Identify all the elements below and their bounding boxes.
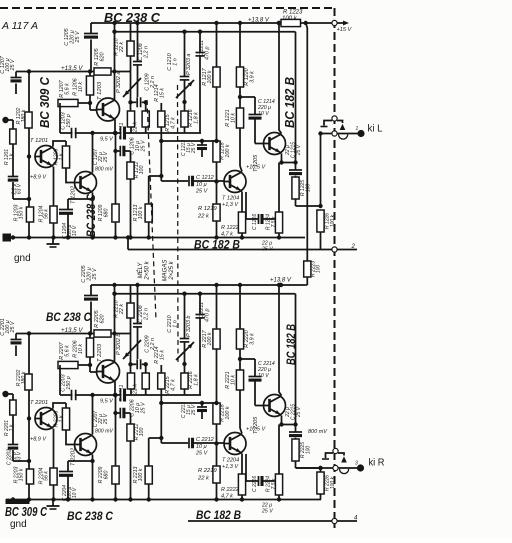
wire base divider bbox=[28, 72, 30, 238]
svg-text:150 p: 150 p bbox=[66, 114, 72, 128]
svg-text:100 k: 100 k bbox=[207, 332, 213, 345]
capacitor C2205 220u 25V bbox=[90, 285, 92, 295]
svg-text:4,7 k: 4,7 k bbox=[221, 494, 233, 500]
svg-text:T 2201: T 2201 bbox=[30, 400, 48, 406]
svg-text:A 117 A: A 117 A bbox=[1, 20, 38, 32]
svg-text:9,5 V: 9,5 V bbox=[100, 137, 114, 143]
input node (channel 1) bbox=[2, 117, 8, 123]
svg-text:+10,5 V: +10,5 V bbox=[246, 165, 266, 171]
svg-text:T 1202: T 1202 bbox=[71, 185, 77, 204]
svg-text:P 3202 a: P 3202 a bbox=[116, 72, 122, 93]
svg-text:2×25 k: 2×25 k bbox=[169, 260, 175, 280]
transistor T2203 bbox=[97, 360, 120, 383]
resistor R2207 5.6k bbox=[58, 361, 78, 368]
svg-text:150 k: 150 k bbox=[19, 468, 25, 481]
svg-text:+13,8 V: +13,8 V bbox=[270, 278, 292, 284]
ground rail bbox=[6, 499, 305, 501]
capacitor C2206 10u 25V bbox=[121, 389, 123, 402]
svg-text:100 k: 100 k bbox=[138, 206, 144, 219]
svg-text:22 k: 22 k bbox=[119, 42, 125, 53]
output jack ki R bbox=[326, 453, 334, 458]
svg-text:MÉLY: MÉLY bbox=[137, 262, 144, 279]
svg-text:25 V: 25 V bbox=[191, 404, 197, 416]
wire T1205 collector bbox=[279, 23, 282, 134]
svg-text:P 3203 b: P 3203 b bbox=[186, 316, 192, 337]
wire T1205 emitter bbox=[282, 154, 296, 163]
svg-text:15 k: 15 k bbox=[160, 88, 166, 98]
resistor R2201 1k bbox=[10, 400, 16, 415]
capacitor C1210 1n bbox=[184, 32, 186, 76]
resistor R1211 22k bbox=[127, 111, 134, 127]
svg-text:P 3202 b: P 3202 b bbox=[116, 334, 122, 355]
resistor R2202 180k bbox=[25, 374, 32, 390]
gang dashed link (treble pot) bbox=[177, 85, 180, 362]
resistor R1219 22k bbox=[213, 204, 220, 221]
svg-text:100: 100 bbox=[306, 184, 312, 193]
svg-text:T 2202: T 2202 bbox=[71, 447, 77, 466]
svg-text:63 V: 63 V bbox=[17, 451, 23, 462]
svg-text:R 1223: R 1223 bbox=[283, 10, 303, 16]
svg-text:25 V: 25 V bbox=[195, 451, 209, 457]
svg-text:22 k: 22 k bbox=[133, 122, 139, 133]
resistor R2215 4.7k bbox=[160, 365, 162, 373]
svg-text:MAGAS: MAGAS bbox=[163, 260, 169, 282]
svg-text:BC 309 C: BC 309 C bbox=[38, 76, 52, 128]
svg-text:T 1201: T 1201 bbox=[30, 138, 48, 144]
capacitor C2203 150p bbox=[72, 390, 74, 401]
capacitor C1213 15u 25V bbox=[201, 141, 203, 145]
svg-text:10 V: 10 V bbox=[72, 225, 78, 236]
svg-text:1 n: 1 n bbox=[173, 320, 179, 328]
svg-text:4,7 k: 4,7 k bbox=[171, 117, 177, 129]
svg-text:22 k: 22 k bbox=[197, 476, 210, 482]
transistor T2204 bbox=[224, 433, 246, 455]
svg-text:100 k: 100 k bbox=[225, 406, 231, 419]
resistor R2218 100k bbox=[213, 403, 220, 424]
svg-text:1,8 k: 1,8 k bbox=[194, 112, 200, 124]
capacitor C1204 220u 10V bbox=[68, 198, 93, 200]
emitter rail bbox=[60, 394, 201, 396]
transistor T1205 bbox=[264, 133, 286, 155]
resistor R1210 22k bbox=[130, 23, 132, 111]
svg-text:T 2203: T 2203 bbox=[97, 343, 103, 362]
svg-text:180 k: 180 k bbox=[21, 109, 27, 122]
ground symbol bbox=[52, 238, 54, 245]
svg-text:+13,8 V: +13,8 V bbox=[248, 18, 270, 24]
capacitor C1209 2.2n bbox=[131, 101, 137, 103]
capacitor C2210 1n bbox=[184, 294, 186, 338]
transistor T2201 bbox=[35, 408, 57, 430]
resistor R1203 150k bbox=[26, 207, 33, 222]
svg-text:10 k: 10 k bbox=[78, 82, 84, 92]
svg-text:C 2216: C 2216 bbox=[252, 476, 258, 492]
capacitor C2208 2.2n bbox=[137, 285, 139, 323]
svg-text:25 V: 25 V bbox=[10, 58, 16, 71]
output jack ki L bbox=[324, 121, 332, 126]
resistor R1217 100k bbox=[216, 23, 218, 67]
potentiometer P 3203 a bbox=[176, 80, 194, 98]
resistor R2214 15k bbox=[145, 364, 147, 373]
resistor R2225 100 bbox=[292, 439, 299, 461]
svg-text:C 1212: C 1212 bbox=[196, 175, 214, 181]
wire +13.5V rail (channel a) bbox=[29, 71, 131, 73]
capacitor C1207 22u bbox=[115, 133, 117, 204]
resistor R1218 100k bbox=[213, 141, 220, 162]
capacitor C2212 10u 25V bbox=[161, 442, 188, 444]
svg-text:22 k: 22 k bbox=[119, 304, 125, 315]
svg-text:25 V: 25 V bbox=[75, 30, 81, 43]
resistor R1208 1k bbox=[65, 141, 67, 146]
capacitor C2211 470p bbox=[199, 294, 201, 314]
svg-text:150 p: 150 p bbox=[66, 376, 72, 390]
resistor R2210 22k bbox=[130, 285, 132, 373]
svg-text:25 V: 25 V bbox=[261, 509, 273, 515]
svg-text:+15 V: +15 V bbox=[337, 27, 353, 33]
svg-text:680: 680 bbox=[104, 209, 110, 218]
wire collector feed T1203 bbox=[114, 23, 116, 100]
svg-text:2×50 k: 2×50 k bbox=[145, 260, 151, 280]
resistor R2220 3.9k bbox=[239, 285, 241, 329]
capacitor C2214 220u 10V bbox=[240, 358, 255, 360]
svg-text:470 p: 470 p bbox=[205, 309, 211, 323]
svg-text:1 k: 1 k bbox=[59, 415, 65, 422]
capacitor C1207 100u 25V bbox=[16, 71, 29, 73]
resistor R1206 10k bbox=[89, 72, 91, 77]
svg-text:63 V: 63 V bbox=[17, 183, 23, 194]
resistor R1223 100k bbox=[306, 22, 334, 24]
input node (channel 2) bbox=[2, 391, 8, 397]
svg-text:10 k: 10 k bbox=[78, 344, 84, 354]
svg-text:P 3203 a: P 3203 a bbox=[186, 54, 192, 75]
svg-text:R 1222: R 1222 bbox=[221, 225, 239, 231]
capacitor C1205 220u 25V bbox=[90, 23, 92, 33]
wire T2201 collector bbox=[53, 403, 66, 409]
svg-text:470 p: 470 p bbox=[205, 47, 211, 61]
svg-text:10 k: 10 k bbox=[231, 113, 237, 123]
output wire bbox=[296, 205, 321, 207]
svg-text:+13,5 V: +13,5 V bbox=[61, 327, 83, 334]
svg-text:R 1219: R 1219 bbox=[198, 206, 217, 212]
resistor R2219 22k bbox=[213, 466, 220, 483]
svg-text:25 V: 25 V bbox=[296, 406, 302, 418]
svg-text:100 k: 100 k bbox=[138, 468, 144, 481]
supply feed to lower channel bbox=[306, 23, 308, 261]
capacitor C1203 150p bbox=[72, 128, 74, 139]
output node ki R bbox=[357, 464, 364, 471]
capacitor C1202 2.2u 63V bbox=[12, 144, 14, 176]
capacitor C1214 220u 10V bbox=[240, 96, 255, 98]
wire T1201 emitter bbox=[53, 167, 55, 207]
resistor R1209 680 bbox=[112, 204, 119, 222]
svg-text:25 V: 25 V bbox=[296, 144, 302, 156]
wire T2205 emitter bbox=[282, 416, 296, 425]
transistor T2202 bbox=[75, 434, 97, 456]
svg-text:180 k: 180 k bbox=[21, 371, 27, 384]
transistor T1202 bbox=[75, 172, 97, 194]
capacitor C2201 100u 25V bbox=[16, 333, 29, 335]
transistor T1203 bbox=[97, 98, 120, 121]
dashed border right bbox=[334, 8, 336, 528]
svg-text:56 k: 56 k bbox=[44, 471, 50, 481]
svg-text:+8,9 V: +8,9 V bbox=[30, 437, 47, 443]
capacitor C2215 22u 25V bbox=[295, 294, 297, 432]
wire T2205 collector bbox=[279, 285, 282, 396]
svg-text:+10,5 V: +10,5 V bbox=[246, 427, 266, 433]
line to pin 4 bbox=[188, 520, 357, 522]
svg-text:680: 680 bbox=[104, 471, 110, 480]
svg-text:100 k: 100 k bbox=[330, 214, 336, 227]
resistor R2226 100k bbox=[317, 472, 324, 494]
capacitor C1208 2.2n bbox=[137, 23, 139, 61]
emitter rail bbox=[60, 132, 201, 134]
resistor R2205 620 bbox=[94, 330, 111, 337]
ground rail bbox=[6, 237, 305, 239]
capacitor C2213 15u 25V bbox=[201, 403, 203, 407]
svg-text:10 k: 10 k bbox=[231, 375, 237, 385]
svg-text:10 V: 10 V bbox=[258, 373, 269, 379]
resistor R1215 4.7k bbox=[160, 103, 162, 111]
svg-text:9,5 V: 9,5 V bbox=[100, 399, 114, 405]
resistor R2208 1k bbox=[65, 403, 67, 408]
capacitor C1211 470p bbox=[199, 32, 201, 52]
transistor T1201 bbox=[35, 146, 57, 168]
capacitor C2209 2.2n bbox=[131, 363, 137, 365]
svg-text:BC 309 C: BC 309 C bbox=[5, 505, 48, 519]
transistor T1204 bbox=[224, 171, 246, 193]
svg-text:3: 3 bbox=[355, 461, 358, 467]
resistor R1214 15k bbox=[145, 102, 147, 111]
resistor R1202 180k bbox=[25, 112, 32, 128]
wire T2202 collector bbox=[92, 395, 94, 435]
svg-text:15 k: 15 k bbox=[160, 350, 166, 360]
wire +13.5V rail (channel b) bbox=[29, 333, 131, 335]
svg-text:25 V: 25 V bbox=[141, 139, 147, 152]
resistor R1205 620 bbox=[94, 68, 111, 75]
svg-text:BC 182 B: BC 182 B bbox=[284, 324, 298, 365]
svg-text:620: 620 bbox=[100, 53, 106, 62]
resistor R1220 3.9k bbox=[239, 23, 241, 67]
svg-text:R 2222: R 2222 bbox=[221, 487, 239, 493]
ground terminal square bbox=[3, 234, 12, 242]
svg-text:25 V: 25 V bbox=[191, 142, 197, 154]
resistor R2206 10k bbox=[89, 334, 91, 339]
svg-text:C 1216: C 1216 bbox=[252, 214, 258, 230]
tape head symbol bbox=[6, 499, 30, 504]
resistor R1213 100k bbox=[149, 175, 162, 177]
resistor R2213 100k bbox=[149, 437, 162, 439]
wire T1202 collector bbox=[92, 133, 94, 173]
svg-text:22 k: 22 k bbox=[133, 384, 139, 395]
svg-text:1,8 k: 1,8 k bbox=[194, 374, 200, 386]
wire collector feed T2203 bbox=[114, 285, 116, 362]
svg-text:ki L: ki L bbox=[368, 123, 383, 135]
wire feedback bbox=[161, 140, 216, 142]
potentiometer P 3202 a bbox=[123, 78, 141, 97]
svg-text:100: 100 bbox=[316, 265, 322, 274]
svg-text:BC 238 C: BC 238 C bbox=[104, 10, 161, 25]
svg-text:3,9 k: 3,9 k bbox=[250, 333, 256, 345]
svg-text:5,6 k: 5,6 k bbox=[65, 83, 71, 95]
svg-text:150 k: 150 k bbox=[19, 206, 25, 219]
potentiometer P 3202 b bbox=[123, 340, 141, 359]
svg-text:100: 100 bbox=[139, 166, 145, 175]
wire T2202 emitter bbox=[92, 455, 94, 500]
svg-text:1 k: 1 k bbox=[59, 153, 65, 160]
svg-text:C 2212: C 2212 bbox=[196, 437, 214, 443]
resistor R2204 56k bbox=[50, 468, 57, 485]
svg-text:10 V: 10 V bbox=[72, 487, 78, 498]
capacitor C2204 220u 10V bbox=[68, 460, 93, 462]
svg-text:10 μ: 10 μ bbox=[196, 444, 207, 450]
resistor R2223 100 bbox=[304, 261, 311, 277]
wire driver feed bbox=[115, 31, 296, 33]
wire base divider bbox=[28, 334, 30, 500]
capacitor C1215 22u 25V bbox=[295, 32, 297, 170]
wire +13.8V rail (channel b) bbox=[91, 284, 306, 286]
dashed border top bbox=[0, 7, 335, 9]
svg-text:BC 238 C: BC 238 C bbox=[67, 511, 114, 523]
resistor R1212 100 bbox=[130, 151, 132, 162]
capacitor C2207 22u bbox=[115, 395, 117, 466]
svg-text:BC 238 C: BC 238 C bbox=[84, 194, 98, 237]
svg-text:7,5 k: 7,5 k bbox=[271, 216, 277, 227]
+15V terminal bbox=[332, 20, 337, 25]
resistor R2203 150k bbox=[26, 469, 33, 484]
transistor T2205 bbox=[264, 395, 286, 417]
svg-text:100: 100 bbox=[306, 446, 312, 455]
resistor R1221 10k bbox=[236, 108, 243, 128]
svg-text:BC 238 C: BC 238 C bbox=[46, 310, 91, 324]
resistor R1224 7.5k bbox=[278, 163, 280, 213]
svg-text:1: 1 bbox=[356, 126, 359, 132]
svg-text:4,7 k: 4,7 k bbox=[171, 379, 177, 391]
svg-text:100 k: 100 k bbox=[225, 144, 231, 157]
wire T2201 emitter bbox=[53, 429, 55, 469]
wire T1201 collector bbox=[53, 141, 66, 147]
svg-text:T 2204: T 2204 bbox=[222, 458, 239, 464]
svg-text:BC 182 B: BC 182 B bbox=[283, 77, 297, 128]
resistor R2217 100k bbox=[216, 285, 218, 329]
svg-text:25 V: 25 V bbox=[103, 151, 109, 163]
wire driver feed bbox=[115, 293, 296, 295]
resistor R1204 56k bbox=[50, 206, 57, 223]
wire +13.8V rail (channel a) bbox=[91, 22, 306, 24]
capacitor C2202 2.2u 63V bbox=[12, 415, 14, 444]
resistor R2224 7.5k bbox=[278, 425, 280, 475]
resistor R1216 1.8k bbox=[181, 111, 188, 127]
resistor R1222 4.7k bbox=[241, 192, 243, 213]
svg-text:22 k: 22 k bbox=[197, 214, 210, 220]
capacitor C2216 22u 25V bbox=[245, 454, 247, 481]
capacitor C1216 22u 25V bbox=[245, 192, 247, 219]
wire feedback bbox=[161, 402, 216, 404]
svg-text:56 k: 56 k bbox=[44, 209, 50, 219]
svg-text:800 mV: 800 mV bbox=[95, 429, 113, 435]
svg-text:ki R: ki R bbox=[369, 457, 385, 469]
svg-text:10 μ: 10 μ bbox=[196, 182, 207, 188]
svg-text:R 2219: R 2219 bbox=[198, 468, 217, 474]
svg-text:800 mV: 800 mV bbox=[308, 429, 328, 435]
svg-text:T 1203: T 1203 bbox=[97, 81, 103, 100]
resistor R2216 1.8k bbox=[181, 373, 188, 389]
resistor R2222 4.7k bbox=[241, 454, 243, 475]
svg-text:100 k: 100 k bbox=[330, 476, 336, 489]
svg-text:+1,3 V: +1,3 V bbox=[222, 464, 239, 470]
output node ki L bbox=[357, 130, 364, 137]
svg-text:7,5 k: 7,5 k bbox=[271, 478, 277, 489]
resistor R2212 100 bbox=[130, 413, 132, 424]
svg-text:25 V: 25 V bbox=[103, 413, 109, 425]
svg-text:+1,3 V: +1,3 V bbox=[222, 202, 239, 208]
svg-text:1 n: 1 n bbox=[173, 58, 179, 66]
svg-text:100: 100 bbox=[139, 428, 145, 437]
resistor R2209 680 bbox=[112, 466, 119, 484]
capacitor C1206 10u 25V bbox=[121, 127, 123, 140]
svg-text:25 V: 25 V bbox=[195, 189, 209, 195]
svg-text:800 mV: 800 mV bbox=[95, 167, 113, 173]
capacitor C1212 10u 25V bbox=[161, 180, 188, 182]
svg-text:2,2 n: 2,2 n bbox=[144, 308, 150, 321]
svg-text:2,2 n: 2,2 n bbox=[144, 46, 150, 59]
resistor R2211 22k bbox=[127, 373, 134, 389]
line to pin 2 bbox=[128, 249, 357, 251]
ground symbol bbox=[52, 500, 54, 507]
resistor R1207 5.6k bbox=[58, 99, 78, 106]
svg-text:100 k: 100 k bbox=[282, 16, 298, 22]
svg-text:5,6 k: 5,6 k bbox=[65, 345, 71, 357]
resistor R1226 100k bbox=[317, 210, 324, 232]
svg-text:3,9 k: 3,9 k bbox=[250, 71, 256, 83]
svg-text:25 V: 25 V bbox=[92, 267, 98, 280]
svg-text:4,7 k: 4,7 k bbox=[221, 232, 233, 238]
wire T1202 emitter bbox=[92, 193, 94, 238]
svg-text:25 V: 25 V bbox=[141, 401, 147, 414]
svg-text:2: 2 bbox=[351, 244, 356, 250]
output wire bbox=[296, 467, 321, 469]
potentiometer P 3203 b bbox=[176, 342, 194, 360]
svg-text:10 V: 10 V bbox=[258, 111, 269, 117]
svg-text:gnd: gnd bbox=[14, 253, 31, 264]
resistor R1225 100 bbox=[292, 177, 299, 199]
svg-text:25 V: 25 V bbox=[10, 320, 16, 333]
svg-text:T 1204: T 1204 bbox=[222, 196, 239, 202]
gang dashed link (bass pot) bbox=[147, 100, 156, 320]
svg-text:+13,5 V: +13,5 V bbox=[61, 65, 83, 72]
svg-text:gnd: gnd bbox=[10, 519, 27, 530]
svg-text:+8,9 V: +8,9 V bbox=[30, 175, 47, 181]
svg-text:620: 620 bbox=[100, 315, 106, 324]
resistor R1201 1k bbox=[10, 129, 16, 144]
svg-text:100 k: 100 k bbox=[207, 70, 213, 83]
resistor R2221 10k bbox=[236, 370, 243, 390]
